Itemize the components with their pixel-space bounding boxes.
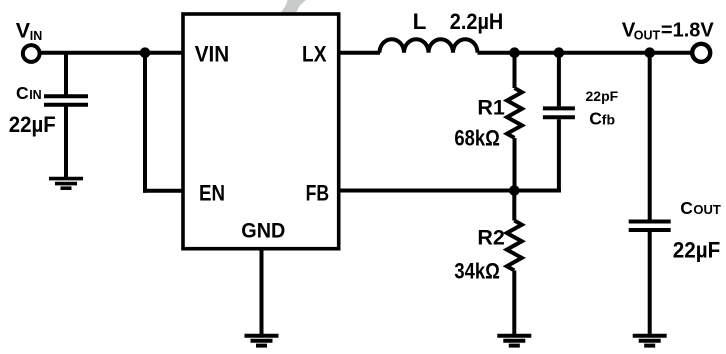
svg-text:VIN: VIN bbox=[195, 42, 230, 67]
inductor L1 bbox=[380, 39, 478, 53]
svg-text:LX: LX bbox=[302, 42, 327, 67]
svg-text:EN: EN bbox=[199, 180, 225, 205]
wire LX to inductor bbox=[339, 51, 380, 55]
svg-text:IN: IN bbox=[30, 29, 43, 43]
terminal VOUT circle bbox=[692, 44, 710, 62]
svg-text:R1: R1 bbox=[477, 95, 505, 119]
ground (Cout) bbox=[633, 336, 667, 346]
capacitor C3 Cfb stem top bbox=[557, 53, 561, 107]
resistor R1 stem top bbox=[513, 53, 517, 88]
resistor R2 zigzag bbox=[507, 221, 522, 271]
svg-text:=1.8V: =1.8V bbox=[661, 20, 714, 42]
wire GND pin bbox=[260, 249, 264, 334]
capacitor C2 Cout stem bottom bbox=[648, 232, 652, 334]
svg-text:C: C bbox=[16, 83, 29, 103]
svg-text:22µF: 22µF bbox=[9, 112, 56, 137]
capacitor C3 Cfb plates bbox=[543, 106, 575, 110]
watermark bbox=[281, 0, 306, 12]
capacitor C3 Cfb stem bottom bbox=[557, 119, 561, 192]
wire EN horizontal bbox=[143, 189, 183, 193]
node Vout junction dot bbox=[644, 47, 655, 58]
terminal VIN circle bbox=[23, 45, 40, 62]
svg-text:OUT: OUT bbox=[693, 202, 721, 217]
svg-text:R2: R2 bbox=[477, 226, 505, 250]
node FB junction dot bbox=[509, 185, 520, 196]
ground (GND pin) bbox=[245, 336, 279, 346]
svg-text:22µF: 22µF bbox=[673, 237, 721, 262]
svg-text:FB: FB bbox=[306, 180, 330, 205]
svg-text:68kΩ: 68kΩ bbox=[454, 126, 500, 151]
node Cfb junction dot bbox=[554, 47, 565, 58]
resistor R1 stem bottom bbox=[513, 138, 517, 191]
svg-text:V: V bbox=[16, 19, 31, 43]
capacitor C1 Cin stem upper bbox=[64, 53, 68, 95]
wire FB horizontal bbox=[339, 189, 561, 193]
svg-text:C: C bbox=[589, 108, 602, 128]
svg-text:34kΩ: 34kΩ bbox=[454, 259, 500, 284]
svg-text:OUT: OUT bbox=[634, 29, 661, 43]
capacitor C1 Cin plates bbox=[44, 94, 88, 98]
resistor R2 stem bottom bbox=[512, 271, 516, 335]
wire EN vertical bbox=[143, 53, 147, 193]
wire top-left (Vin to IC) bbox=[39, 51, 183, 55]
resistor R2 stem top bbox=[512, 191, 516, 221]
svg-text:GND: GND bbox=[241, 219, 285, 243]
capacitor C1 Cin stem lower bbox=[64, 107, 68, 178]
op-amp U1 IC box bbox=[183, 14, 339, 249]
svg-text:C: C bbox=[680, 198, 693, 218]
capacitor C2 Cout plates bbox=[629, 220, 671, 224]
svg-text:2.2µH: 2.2µH bbox=[450, 9, 504, 34]
resistor R1 zigzag bbox=[507, 88, 522, 138]
wire inductor to Vout bbox=[478, 51, 694, 55]
svg-text:fb: fb bbox=[602, 111, 615, 127]
svg-text:22pF: 22pF bbox=[586, 88, 619, 104]
svg-text:L: L bbox=[413, 9, 427, 34]
node A junction dot bbox=[140, 47, 151, 58]
capacitor C2 Cout stem top bbox=[648, 53, 652, 220]
svg-text:IN: IN bbox=[29, 88, 42, 102]
node LX-R1 junction dot bbox=[509, 47, 520, 58]
ground (Cin) bbox=[49, 179, 83, 189]
ground (R2) bbox=[497, 336, 531, 346]
